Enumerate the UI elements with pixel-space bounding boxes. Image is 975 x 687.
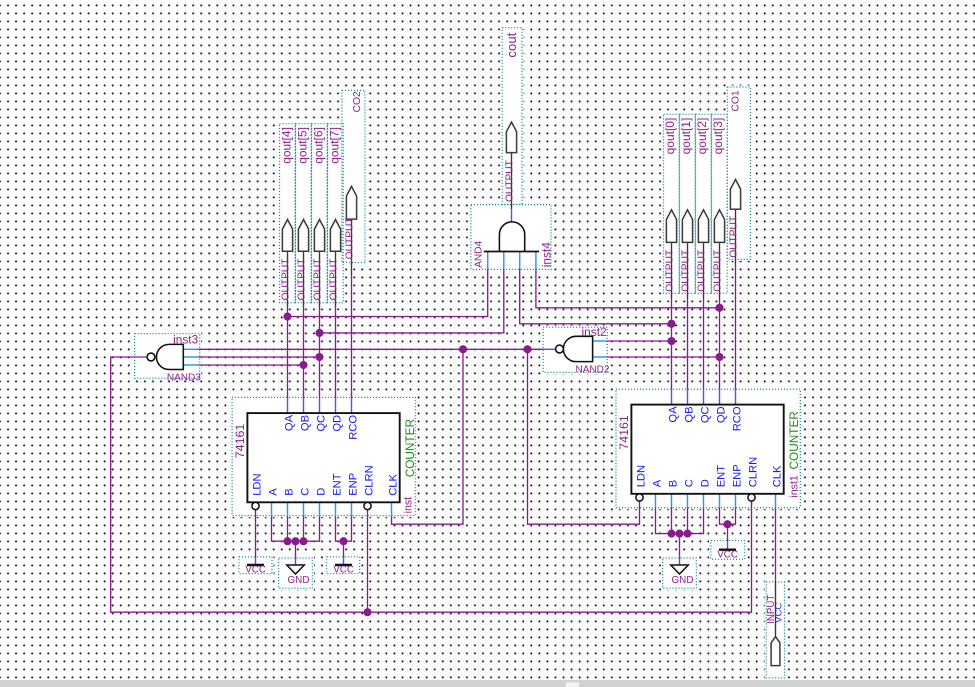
selection box VCC symbol 1 fill	[237, 555, 273, 575]
NAND3 gate inst3 body	[156, 344, 183, 369]
svg-text:GND: GND	[672, 575, 694, 586]
output pin qout[3] lead	[719, 242, 721, 299]
svg-text:B: B	[284, 488, 296, 495]
svg-text:QA: QA	[668, 406, 680, 423]
counter inst top pin stubs	[287, 398, 289, 414]
svg-text:RCO: RCO	[348, 415, 360, 440]
output pin CO2 symbol	[346, 186, 356, 219]
junction B1 bus	[283, 537, 291, 545]
output pin qout[4] lead	[287, 251, 289, 308]
wire B2 drop	[671, 508, 673, 534]
svg-text:AND4: AND4	[473, 240, 484, 267]
svg-text:OUTPUT: OUTPUT	[280, 259, 291, 301]
selection box output pin qout[5] fill	[294, 122, 313, 304]
wire AND4 input2 to QC1	[320, 269, 504, 333]
svg-text:ENP: ENP	[732, 464, 744, 487]
output pin cout symbol	[506, 122, 516, 153]
svg-text:inst3: inst3	[173, 333, 199, 347]
svg-text:QB: QB	[300, 415, 312, 431]
svg-text:CLRN: CLRN	[748, 457, 760, 487]
wire NAND2 output to NAND3 input1	[199, 348, 544, 350]
svg-text:A: A	[652, 479, 664, 487]
svg-text:NAND2: NAND2	[576, 365, 610, 376]
svg-text:QD: QD	[332, 415, 344, 432]
selection box output pin qout[3]	[712, 114, 728, 293]
selection box GND symbol 2 fill	[661, 556, 698, 590]
svg-text:qout[0]: qout[0]	[663, 118, 677, 155]
svg-text:inst4: inst4	[539, 242, 553, 268]
junction QC1/AND4in2	[315, 329, 323, 337]
output pin qout[5] symbol	[298, 220, 308, 252]
svg-text:qout[7]: qout[7]	[328, 127, 342, 164]
junction C2 bus	[683, 530, 691, 538]
selection box output pin qout[3] fill	[710, 113, 729, 295]
junction VCC2 bus	[339, 537, 347, 545]
junction QC1/NAND3in2	[315, 353, 323, 361]
selection box output pin cout fill	[501, 26, 524, 206]
svg-text:ENT: ENT	[332, 473, 344, 496]
power symbol VCC 2	[335, 564, 352, 566]
junction VCC3 bus	[723, 520, 731, 528]
power symbol VCC 1	[247, 564, 264, 566]
svg-text:qout[2]: qout[2]	[695, 118, 709, 155]
wire bus1 to GND	[295, 541, 297, 557]
wire ENT1-ENP1 bus	[336, 516, 352, 541]
wire A2-D2 bus	[656, 508, 704, 534]
wire net qout[7] vertical QD1	[335, 308, 337, 398]
wire A1-D1 bus	[272, 516, 320, 541]
selection box AND4 gate inst4	[471, 205, 551, 270]
74161 counter inst1 body	[631, 405, 783, 494]
svg-text:inst1: inst1	[789, 475, 801, 497]
VCC2 pin stub	[343, 557, 345, 565]
wire bus2 to GND	[679, 534, 681, 557]
svg-text:OUTPUT: OUTPUT	[680, 250, 691, 292]
svg-text:A: A	[268, 488, 280, 496]
selection box AND4 gate inst4 fill	[469, 203, 552, 271]
svg-text:qout[6]: qout[6]	[312, 127, 326, 164]
selection box VCC symbol 3 fill	[709, 539, 746, 561]
wire net qout[0] vertical QA2	[671, 299, 673, 389]
wire net CO2 vertical RCO1	[351, 276, 353, 398]
svg-text:QC: QC	[316, 415, 328, 432]
svg-text:NAND3: NAND3	[167, 373, 201, 384]
ground symbol GND 2	[671, 565, 689, 574]
output pin qout[7] lead	[335, 251, 337, 308]
VCC1 pin stub	[255, 557, 257, 565]
junction QD2/NAND2in2	[715, 353, 723, 361]
selection box output pin qout[0]	[664, 114, 680, 293]
NAND2 gate inst2 body	[563, 336, 592, 361]
power symbol VCC 3	[719, 549, 736, 551]
selection box NAND3 gate inst3	[135, 334, 200, 379]
wire net qout[4] vertical QA1	[287, 308, 289, 398]
wire NAND2 input2 to QD2	[607, 356, 719, 358]
selection box VCC symbol 2	[327, 557, 360, 574]
output pin CO2 lead	[351, 219, 353, 276]
selection box GND symbol 1 fill	[277, 556, 314, 590]
wire B1 drop	[287, 516, 289, 541]
svg-text:OUTPUT: OUTPUT	[296, 259, 307, 301]
output pin qout[1] lead	[687, 242, 689, 299]
junction QA2/NAND2in1	[667, 337, 675, 345]
GND2 pin stub	[679, 557, 681, 565]
selection box counter inst fill	[231, 396, 417, 517]
svg-text:VCC: VCC	[333, 565, 354, 576]
selection box input pin VCC	[766, 582, 784, 678]
svg-text:B: B	[668, 480, 680, 487]
svg-text:inst2: inst2	[582, 325, 608, 339]
svg-text:OUTPUT: OUTPUT	[664, 250, 675, 292]
AND4 input bar	[484, 251, 539, 253]
svg-text:qout[1]: qout[1]	[679, 118, 693, 155]
junction CLK1 tap	[459, 345, 467, 353]
NAND2 bubble	[556, 345, 564, 353]
74161 counter inst body	[247, 413, 399, 502]
selection box output pin qout[1]	[680, 114, 696, 293]
NAND2 output stub	[543, 348, 556, 350]
svg-text:qout[4]: qout[4]	[280, 127, 294, 164]
selection box output pin qout[2]	[696, 114, 712, 293]
svg-text:qout[3]: qout[3]	[711, 118, 725, 155]
counter inst1 bottom pin stubs	[655, 494, 657, 508]
NAND3 input stubs	[183, 348, 198, 350]
svg-text:CLRN: CLRN	[364, 465, 376, 495]
wire NAND3 input2 to QC1	[199, 356, 320, 358]
wire net qout[1] vertical QB2	[687, 299, 689, 389]
svg-text:LDN: LDN	[252, 473, 264, 495]
svg-text:OUTPUT: OUTPUT	[712, 250, 723, 292]
output pin qout[3] symbol	[714, 210, 724, 243]
selection box output pin qout[6] fill	[310, 122, 329, 304]
selection box output pin qout[0] fill	[662, 113, 681, 295]
wire CLK2 to input pin VCC	[775, 508, 777, 580]
svg-text:QA: QA	[284, 414, 296, 431]
wire NAND3 input3 to QB1	[199, 364, 304, 366]
scrollbar thumb	[566, 682, 579, 687]
junction QD2/AND4in4	[715, 304, 723, 312]
selection box GND symbol 1	[279, 558, 313, 588]
svg-text:C: C	[300, 488, 312, 496]
svg-text:74161: 74161	[617, 415, 631, 450]
svg-text:QD: QD	[716, 406, 728, 423]
wire CLRN2 stub	[751, 501, 753, 505]
selection box NAND2 gate inst2	[543, 327, 607, 372]
inst LDN bubble	[252, 502, 259, 509]
junction LDN2 tap	[523, 345, 531, 353]
wire AND4 input1 to QA1	[288, 269, 488, 317]
wire ENT1 bus to VCC	[343, 541, 345, 556]
svg-text:VCC: VCC	[245, 565, 266, 576]
svg-text:VCC: VCC	[717, 549, 738, 560]
selection box output pin qout[7] fill	[326, 122, 345, 304]
selection box output pin qout[4]	[280, 124, 296, 303]
wire net qout[3] vertical QD2	[719, 299, 721, 389]
output pin qout[2] symbol	[698, 210, 708, 243]
horizontal scrollbar track	[0, 680, 975, 687]
selection box output pin qout[2] fill	[694, 113, 713, 295]
selection box VCC symbol 1	[239, 557, 272, 574]
output pin qout[0] lead	[671, 242, 673, 299]
selection box counter inst1 fill	[614, 388, 802, 510]
svg-text:CLK: CLK	[772, 465, 784, 487]
selection box output pin CO2 fill	[340, 89, 366, 264]
junction QA1/AND4in1	[283, 312, 291, 320]
counter inst1 top pin stubs	[671, 389, 673, 404]
junction QA2/AND4in3	[667, 320, 675, 328]
selection box output pin cout	[502, 28, 522, 205]
input pin VCC symbol	[771, 637, 780, 666]
selection box output pin qout[6]	[312, 124, 328, 303]
wire AND4 input4 to QD2	[536, 269, 720, 308]
svg-text:GND: GND	[288, 575, 310, 586]
junction GND2 bus	[675, 530, 683, 538]
wire tap to LDN2	[528, 349, 640, 524]
output pin qout[1] symbol	[682, 210, 692, 243]
wire ENT2-ENP2 bus	[720, 508, 736, 525]
svg-text:OUTPUT: OUTPUT	[728, 216, 739, 258]
svg-text:OUTPUT: OUTPUT	[328, 259, 339, 301]
svg-text:inst: inst	[403, 497, 415, 514]
wire net qout[5] vertical QB1	[303, 308, 305, 398]
svg-text:OUTPUT: OUTPUT	[312, 259, 323, 301]
inst1 CLRN bubble	[748, 494, 755, 501]
selection box output pin CO1	[727, 87, 750, 259]
svg-text:COUNTER: COUNTER	[403, 419, 417, 477]
counter inst bottom pin stubs	[271, 502, 273, 516]
svg-text:CLK: CLK	[388, 473, 400, 495]
svg-text:OUTPUT: OUTPUT	[344, 217, 355, 259]
wire net CO1 vertical RCO2	[735, 266, 737, 389]
junction C1 bus	[299, 537, 307, 545]
AND4 gate U inst4 body	[499, 222, 524, 252]
NAND3 output stub	[135, 356, 148, 358]
svg-text:VCC: VCC	[773, 603, 784, 623]
output pin qout[5] lead	[303, 251, 305, 308]
svg-text:D: D	[700, 479, 712, 487]
inst1 LDN bubble	[636, 494, 643, 501]
selection box counter inst	[232, 397, 415, 515]
junction GND1 bus	[291, 537, 299, 545]
GND1 pin stub	[295, 557, 297, 565]
output pin qout[6] symbol	[314, 220, 324, 252]
AND4 input stubs	[487, 252, 489, 270]
AND4 output stub	[511, 209, 513, 222]
junction B2 bus	[667, 530, 675, 538]
output pin qout[7] symbol	[330, 220, 340, 252]
wire CLRN1 down	[367, 510, 369, 613]
selection box GND symbol 2	[663, 558, 697, 588]
svg-text:OUTPUT: OUTPUT	[504, 160, 515, 202]
selection box VCC symbol 2 fill	[325, 555, 361, 575]
selection box output pin CO1 fill	[726, 85, 752, 261]
svg-text:OUTPUT: OUTPUT	[696, 250, 707, 292]
selection box output pin qout[4] fill	[278, 122, 297, 304]
svg-text:COUNTER: COUNTER	[787, 411, 801, 469]
output pin CO1 lead	[735, 209, 737, 266]
ground symbol GND 1	[287, 565, 305, 574]
VCC3 pin stub	[727, 541, 729, 549]
output pin qout[6] lead	[319, 251, 321, 308]
selection box VCC symbol 3	[711, 541, 745, 560]
svg-text:74161: 74161	[233, 424, 247, 459]
svg-text:QC: QC	[700, 406, 712, 423]
selection box counter inst1	[616, 389, 800, 507]
svg-text:RCO: RCO	[732, 406, 744, 431]
svg-text:cout: cout	[504, 32, 519, 57]
junction CLRN1/bottom	[363, 608, 371, 616]
selection box output pin qout[7]	[328, 124, 344, 303]
wire net qout[6] vertical QC1	[319, 308, 321, 398]
selection box input pin VCC fill	[765, 580, 787, 679]
NAND3 bubble	[147, 353, 155, 361]
wire NAND3 output to CLRN nets	[111, 357, 752, 612]
wire AND4 input3 to QA2	[520, 269, 672, 324]
wire tap to CLK1	[392, 349, 464, 524]
selection box output pin CO2	[342, 90, 365, 262]
svg-text:CO1: CO1	[730, 90, 741, 111]
svg-text:D: D	[316, 488, 328, 496]
wire NAND2 input1 to QA2	[607, 340, 671, 342]
selection box output pin qout[5]	[296, 124, 312, 303]
svg-text:C: C	[684, 479, 696, 487]
svg-text:ENP: ENP	[348, 473, 360, 496]
selection box output pin qout[1] fill	[678, 113, 697, 295]
output pin qout[0] symbol	[666, 210, 676, 243]
output pin CO1 symbol	[730, 180, 740, 210]
junction QB1/NAND3in3	[299, 361, 307, 369]
svg-text:CO2: CO2	[352, 91, 363, 112]
wire LDN1 to VCC	[255, 510, 257, 557]
svg-text:qout[5]: qout[5]	[296, 127, 310, 164]
inst CLRN bubble	[364, 502, 371, 509]
wire C1 drop	[303, 516, 305, 541]
wire C2 drop	[687, 508, 689, 534]
NAND2 input stubs	[593, 340, 608, 342]
wire net qout[2] vertical QC2	[703, 299, 705, 389]
selection box NAND3 gate inst3 fill	[133, 332, 201, 380]
svg-text:LDN: LDN	[636, 465, 648, 487]
output pin cout lead	[511, 153, 513, 210]
input pin lead	[775, 580, 777, 637]
wire ENT2 bus to VCC	[727, 524, 729, 541]
svg-text:ENT: ENT	[716, 465, 728, 488]
output pin qout[2] lead	[703, 242, 705, 299]
svg-text:QB: QB	[684, 406, 696, 422]
selection box NAND2 gate inst2 fill	[542, 326, 609, 375]
output pin qout[4] symbol	[282, 220, 292, 252]
